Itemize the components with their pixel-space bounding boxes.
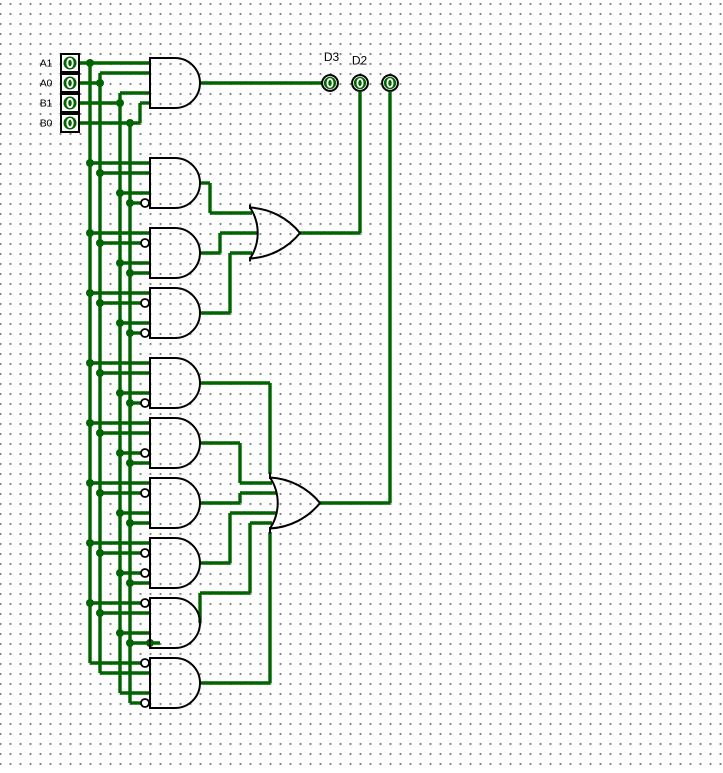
wire A1 to U6 input 1 [90,421,150,424]
AND gate U8 [150,538,200,588]
wire B0 riser to U1 [138,103,141,123]
junction node (130,583) [126,579,134,587]
negation bubble [141,399,149,407]
OR gate V2 [270,473,320,534]
negation bubble [141,449,149,457]
wire A1 to U10 negated input 1 [90,661,141,664]
junction node (90,163) [86,159,94,167]
wire U7 output segment [200,501,240,504]
wire B0 to U1 input 5 [140,101,150,104]
wire B1 to U2 input 4 [120,191,150,194]
wire A1 to U3 input 1 [90,231,150,234]
junction node (120,263) [116,259,124,267]
wire A0 vertical rail [98,73,101,673]
wire B0 to U4 negated input 5 [130,331,141,334]
negation bubble [141,299,149,307]
wire B1 to U1 input 4 [120,91,150,94]
svg-text:D3: D3 [324,50,340,64]
junction node (100,553) [96,549,104,557]
input pin A1 [61,54,79,72]
negation bubble [141,699,149,707]
AND gate U2 [150,158,200,208]
AND gate U9 [150,598,200,648]
wire U2 output segment [200,181,210,184]
AND gate U10 [150,658,200,708]
junction node (100,173) [96,169,104,177]
wire B1 to U7 input 4 [120,511,150,514]
input pin B1 [61,94,79,112]
wire B1 to rail [80,101,120,104]
wire A1 to U8 input 1 [90,541,150,544]
junction node (120,633) [116,629,124,637]
wire B0 to U6 input 5 [130,461,150,464]
wire B0 to U7 input 5 [130,521,150,524]
wire U10 output segment [200,681,270,684]
wire A1 to U1 input 1 [80,61,150,64]
wire B1 vertical rail [118,93,121,693]
label D2 [352,54,368,68]
wire A0 to U9 input 2 [100,611,150,614]
wire U6 output drop [238,443,241,483]
wire U9 to OR V2 input 5 [250,521,272,524]
junction node (130,203) [126,199,134,207]
junction node (90,293) [86,289,94,297]
wire D2 vertical [358,92,361,233]
wire A0 to U3 negated input 2 [100,241,141,244]
wire V2 output to D1 column [320,501,390,504]
wire U7 to OR V2 input 3 [240,491,276,494]
wire U5 output segment [200,381,270,384]
junction node (90,233) [86,229,94,237]
svg-text:D2: D2 [352,54,368,68]
wire A0 to U1 input 2 [100,71,150,74]
wire B1 to U8 negated input 4 [120,571,141,574]
junction node (90,363) [86,359,94,367]
wire U8 output riser [228,513,231,563]
wire A1 to U5 input 1 [90,361,150,364]
wire U3 output segment [200,251,220,254]
output pin D3 [322,75,338,91]
svg-text:A1: A1 [40,58,53,70]
wire U8 to OR V2 input 4 [230,511,276,514]
junction node (120,323) [116,319,124,327]
wire U7 output riser [238,493,241,503]
label B1 [40,98,53,110]
wire A0 to U8 negated input 2 [100,551,141,554]
negation bubble [141,489,149,497]
junction node (130,333) [126,329,134,337]
wire U8 output segment [200,561,230,564]
junction node (120,193) [116,189,124,197]
wire A1 to U2 input 1 [90,161,150,164]
wire B1 to U4 input 4 [120,321,150,324]
wire A0 to rail [80,81,100,84]
junction node (100,613) [96,609,104,617]
junction node (120,453) [116,449,124,457]
junction node (120,393) [116,389,124,397]
junction node (90,423) [86,419,94,427]
AND gate U7 [150,478,200,528]
wire A1 to U7 input 1 [90,481,150,484]
junction node (130,123) [126,119,134,127]
negation bubble [141,199,149,207]
label A0 [40,78,53,90]
wire U6 to OR V2 input 2 [240,481,272,484]
junction node (90,483) [86,479,94,487]
negation bubble [141,239,149,247]
wire U4 to OR V1 input 5 [230,251,252,254]
wire B0 to U2 negated input 5 [130,201,141,204]
junction node (120,513) [116,509,124,517]
negation bubble [141,549,149,557]
label B0 [40,118,53,130]
negation bubble [141,569,149,577]
output pin D2 [352,75,368,91]
wire B0 to U8 input 5 [130,581,150,584]
wire B1 to U5 input 4 [120,391,150,394]
wire U9 output riser [198,593,201,623]
output pin D1 [382,75,398,91]
junction node (100,243) [96,239,104,247]
svg-text:A0: A0 [40,78,53,90]
junction node (150,643) [146,639,154,647]
wire A1 vertical rail [88,63,91,663]
wire U1 output to D3 [200,81,322,84]
negation bubble [141,329,149,337]
wire B0 vertical rail [128,123,131,703]
junction node (100,83) [96,79,104,87]
wire A0 to U5 input 2 [100,371,150,374]
wire U9 output segment [200,591,250,594]
wire B1 to U6 negated input 4 [120,451,141,454]
wire B0 to U10 negated input 5 [130,701,141,704]
wire U4 output riser [228,253,231,313]
svg-text:B1: B1 [40,98,53,110]
wire U3 output riser [218,233,221,253]
wire B1 to U9 input 4 [120,631,150,634]
wire B1 to U3 input 4 [120,261,150,264]
wire U6 output segment [200,441,240,444]
junction node (100,303) [96,299,104,307]
junction node (130,523) [126,519,134,527]
input pin B0 [61,114,79,132]
wire A1 to U9 negated input 1 [90,601,141,604]
AND gate U5 [150,358,200,408]
junction node (90,603) [86,599,94,607]
AND gate U1 [150,58,200,108]
wire A0 to U4 negated input 2 [100,301,141,304]
label A1 [40,58,53,70]
junction node (90,543) [86,539,94,547]
wire U5 drop to OR V2 input 1 [268,383,271,474]
junction node (130,403) [126,399,134,407]
wire U4 output segment [200,311,230,314]
wire B0 to U5 negated input 5 [130,401,141,404]
AND gate U3 [150,228,200,278]
junction node (100,493) [96,489,104,497]
wire A0 to U2 input 2 [100,171,150,174]
wire U2 output drop [208,183,211,213]
wire U3 to OR V1 input 3 [220,231,257,234]
wire B0 to rail [80,121,140,124]
svg-text:B0: B0 [40,118,53,130]
wire A0 to U7 negated input 2 [100,491,141,494]
wire A1 to U4 input 1 [90,291,150,294]
wire U9 riser to OR V2 [248,523,251,593]
negation bubble [141,599,149,607]
input pin A0 [61,74,79,92]
OR gate V1 [250,205,300,262]
label D3 [324,50,340,64]
AND gate U6 [150,418,200,468]
AND gate U4 [150,288,200,338]
wire U2 to OR V1 input 1 [210,211,252,214]
junction node (120,103) [116,99,124,107]
junction node (130,273) [126,269,134,277]
junction node (120,573) [116,569,124,577]
negation bubble [141,659,149,667]
wire A0 to U10 input 2 [100,671,150,674]
junction node (100,433) [96,429,104,437]
junction node (100,373) [96,369,104,377]
junction node (130,463) [126,459,134,467]
wire U10 riser to OR V2 input 6 [268,532,271,683]
junction node (130,643) [126,639,134,647]
junction node (90,63) [86,59,94,67]
wire B1 to U10 input 4 [120,691,150,694]
wire B0 to U3 input 5 [130,271,150,274]
wire A0 to U6 input 2 [100,431,150,434]
wire B0 to U9 input 5 overshoot [130,641,160,644]
wire V1 output to D2 column [300,231,360,234]
wire D1 vertical [388,92,391,503]
